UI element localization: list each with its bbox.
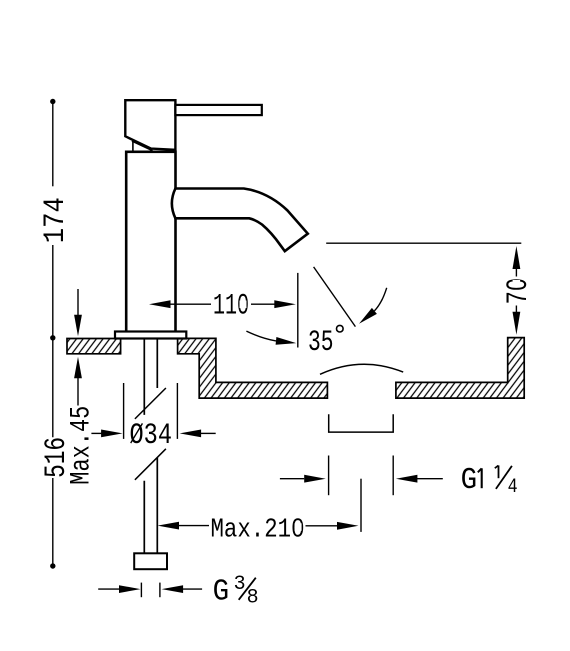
dim dot bottom (50, 563, 55, 568)
dim Max.45 arrow up (74, 357, 82, 379)
dim dot mid (50, 335, 55, 340)
basin step section (hatched) (178, 338, 328, 398)
dim O34 extension lines (123, 383, 125, 439)
dim 110 arrow right (274, 300, 296, 308)
dim Max.45 arrow down (74, 315, 82, 337)
dim O34 arrows (91, 432, 101, 434)
dim 174/516 vertical line (52, 102, 54, 187)
35 deg arc right (374, 288, 386, 311)
faucet body (126, 152, 175, 332)
drain centerline (360, 479, 362, 532)
dim G1 1/4 ticks (328, 456, 330, 496)
svg-text:Ø34: Ø34 (130, 419, 173, 453)
faucet handle (125, 100, 175, 150)
svg-text:8: 8 (247, 587, 259, 610)
zero dot covers (240, 301, 247, 309)
dim G1 1/4 arrows (280, 478, 304, 480)
pop-up waste dome arc (320, 364, 403, 374)
svg-text:G: G (461, 463, 478, 498)
dim dot top (50, 99, 55, 104)
base plate (115, 332, 186, 339)
dim G 3/8 arrows (98, 588, 119, 590)
extension line spout axis (297, 273, 299, 348)
dim Max.210 arrow left (158, 522, 180, 530)
dim 110 arrow left (149, 300, 171, 308)
countertop left slab (hatched) (67, 339, 121, 354)
35 deg arc left (246, 331, 276, 341)
supply pipe left line (143, 339, 145, 415)
dim Max.45 lines (77, 289, 79, 315)
drain outlet U (329, 414, 394, 432)
supply pipe right line (156, 339, 158, 389)
svg-text:35: 35 (308, 326, 334, 360)
spout level reference line (326, 242, 521, 244)
handle lever (175, 105, 261, 115)
dim 70 arrow down (513, 312, 521, 335)
dim G 3/8 ticks (140, 583, 142, 598)
35 deg stream line (314, 267, 356, 327)
svg-text:Max.210: Max.210 (211, 515, 305, 545)
dim Max.210 arrow right (337, 522, 359, 530)
svg-text:Max.45: Max.45 (67, 406, 98, 485)
basin right section with rim (hatched) (396, 338, 524, 399)
svg-text:174: 174 (39, 197, 73, 243)
dim 70 arrow up (513, 246, 521, 269)
pipe end foot (134, 553, 167, 569)
handle cartridge lines (132, 142, 134, 152)
svg-text:G: G (213, 575, 230, 610)
pipe break slash lower (135, 449, 166, 480)
faucet spout (172, 189, 308, 252)
pipe break slash upper (135, 388, 166, 419)
svg-text:4: 4 (508, 476, 518, 499)
